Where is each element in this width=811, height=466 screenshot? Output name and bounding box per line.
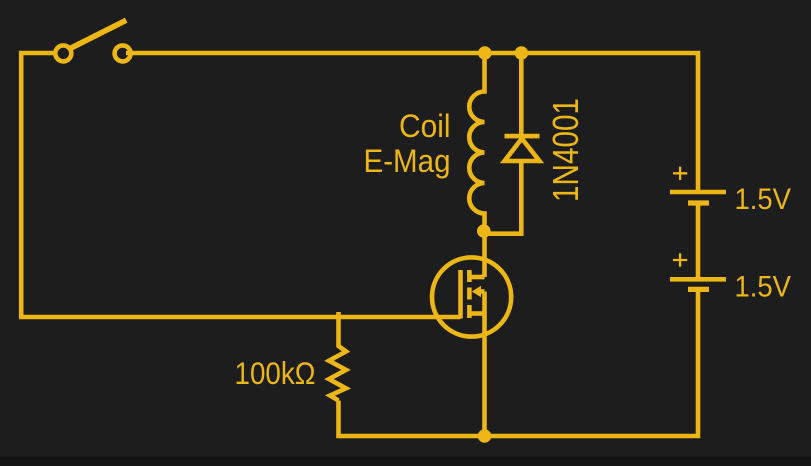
node: source / bottom rail junction bbox=[478, 429, 492, 443]
resistor R1 top stub and zigzag body bbox=[329, 312, 346, 401]
transistor Q1 channel bottom dash bbox=[467, 305, 472, 318]
transistor Q1 MOSFET body circle bbox=[432, 257, 511, 336]
transistor Q1 channel middle dash bbox=[467, 288, 472, 300]
wire: between battery cells bbox=[696, 203, 701, 279]
switch SW1 right terminal circle bbox=[115, 45, 131, 61]
svg-text:1.5V: 1.5V bbox=[735, 183, 792, 216]
wire: top horizontal from switch to right corner bbox=[126, 53, 698, 192]
transistor Q1 body arrow bbox=[472, 286, 481, 298]
svg-text:100kΩ: 100kΩ bbox=[235, 355, 316, 391]
battery B2 plus sign bbox=[673, 253, 687, 266]
battery B1 negative short plate bbox=[688, 200, 709, 205]
node: top diode junction bbox=[515, 46, 529, 60]
battery B1 positive long plate bbox=[670, 190, 726, 195]
svg-text:Coil: Coil bbox=[399, 108, 451, 144]
diode D1 1N4001 cathode lead bbox=[519, 53, 524, 136]
wire: MOSFET drain lead bbox=[482, 231, 487, 277]
inductor L1 Coil E-Mag bbox=[469, 53, 484, 231]
wire: left vertical + top-left segment bbox=[21, 53, 460, 317]
svg-text:1.5V: 1.5V bbox=[735, 271, 792, 304]
transistor Q1 drain connect bar bbox=[469, 275, 484, 280]
transistor Q1 source vertical + lead down bbox=[482, 292, 487, 437]
diode D1 cathode bar bbox=[505, 134, 540, 139]
svg-text:E-Mag: E-Mag bbox=[364, 143, 451, 179]
diode D1 triangle bbox=[505, 139, 540, 162]
resistor R1 bottom lead + bottom rail + right rail up to battery bbox=[339, 289, 699, 436]
transistor Q1 source connect bar bbox=[469, 311, 484, 316]
switch SW1 lever arm bbox=[70, 20, 126, 48]
node: top coil junction bbox=[478, 46, 492, 60]
transistor Q1 channel top dash bbox=[467, 270, 472, 282]
bottom darker strip bbox=[0, 457, 811, 466]
node: coil bottom / drain junction bbox=[477, 224, 491, 238]
switch SW1 left terminal circle bbox=[55, 45, 71, 61]
transistor Q1 gate bar bbox=[458, 270, 463, 319]
svg-text:1N4001: 1N4001 bbox=[545, 98, 586, 202]
transistor Q1 body connect bar bbox=[479, 289, 485, 294]
diode D1 anode lead + jog to coil bottom bbox=[485, 163, 522, 234]
battery B2 negative short plate bbox=[688, 287, 709, 292]
battery B1 plus sign bbox=[673, 167, 687, 180]
battery B2 positive long plate bbox=[670, 277, 726, 282]
